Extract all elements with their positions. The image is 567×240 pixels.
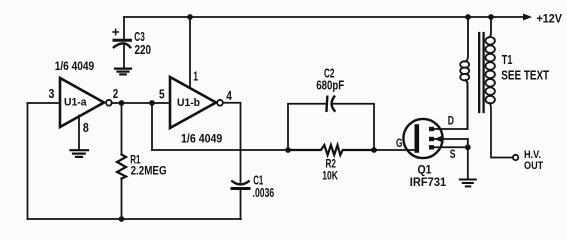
ground below C3 xyxy=(115,69,131,75)
resistor R1 zigzag xyxy=(117,155,126,179)
wire C1 bottom lead xyxy=(240,190,242,219)
wire U1-b output xyxy=(223,103,241,182)
wire U1-b pin1 lead xyxy=(189,17,191,88)
svg-text:5: 5 xyxy=(159,88,165,102)
node R2 left junction xyxy=(285,147,291,153)
op-amp U1-b inverter triangle xyxy=(170,77,216,128)
transistor Q1 source contact xyxy=(429,145,434,149)
ground below Q1 source xyxy=(460,180,476,187)
resistor R2 zigzag xyxy=(288,145,374,155)
svg-text:OUT: OUT xyxy=(524,160,543,172)
node R1 bottom junction xyxy=(119,216,125,222)
capacitor C3 top plate xyxy=(114,39,131,42)
svg-text:D: D xyxy=(448,116,454,128)
svg-text:Q1: Q1 xyxy=(418,165,433,177)
svg-text:IRF731: IRF731 xyxy=(410,177,447,189)
wire C3 bottom lead xyxy=(123,45,125,69)
svg-text:C3: C3 xyxy=(134,30,145,44)
wire pin5 node down xyxy=(151,103,153,150)
node T1 primary rail junction xyxy=(465,14,471,20)
capacitor C1 flat plate xyxy=(232,187,249,190)
resistor R1 bottom lead xyxy=(121,179,123,220)
svg-text:U1-b: U1-b xyxy=(177,97,200,109)
svg-text:2: 2 xyxy=(113,87,118,101)
capacitor C1 curved plate xyxy=(232,181,248,184)
svg-text:1: 1 xyxy=(193,69,198,83)
+12V arrowhead xyxy=(523,14,532,21)
wire top +12V rail xyxy=(124,16,525,18)
svg-text:8: 8 xyxy=(83,121,89,135)
capacitor C2 curved plate xyxy=(332,97,335,111)
svg-text:1/6 4049: 1/6 4049 xyxy=(55,59,95,73)
wire U1-a pin3 input xyxy=(28,102,61,104)
svg-text:G: G xyxy=(396,138,403,150)
op-amp U1-a inverter triangle xyxy=(60,78,104,127)
transistor Q1 body circle xyxy=(403,119,442,158)
svg-text:3: 3 xyxy=(49,87,55,101)
svg-text:1/6 4049: 1/6 4049 xyxy=(181,131,223,145)
node pin1 rail junction xyxy=(187,14,193,20)
capacitor C2 right lead and loop xyxy=(332,104,374,150)
svg-text:T1: T1 xyxy=(502,53,513,67)
wire Q1 source lead xyxy=(432,146,468,148)
svg-text:220: 220 xyxy=(135,43,152,57)
node R2 right junction xyxy=(371,147,377,153)
wire left feedback vertical xyxy=(27,103,29,219)
terminal H.V. OUT circle xyxy=(513,155,518,160)
wire U1-a output to U1-b input xyxy=(112,102,171,104)
op-amp U1-b output bubble xyxy=(217,100,223,106)
transistor Q1 drain contact xyxy=(429,127,434,131)
wire source to ground xyxy=(467,139,469,179)
svg-text:680pF: 680pF xyxy=(316,79,344,93)
node source junction xyxy=(465,144,471,150)
transistor Q1 body contact xyxy=(429,137,434,141)
svg-text:SEE TEXT: SEE TEXT xyxy=(501,69,549,83)
capacitor C2 left lead and loop xyxy=(288,104,326,150)
wire Q1 gate lead xyxy=(374,149,417,151)
op-amp U1-a output bubble xyxy=(106,100,112,106)
wire T1 primary top lead xyxy=(466,17,469,62)
svg-text:+12V: +12V xyxy=(537,14,563,26)
svg-text:2.2MEG: 2.2MEG xyxy=(131,163,167,177)
wire Q1 drain lead xyxy=(432,83,468,129)
wire secondary to H.V. OUT xyxy=(490,103,513,158)
svg-text:.0036: .0036 xyxy=(253,186,275,200)
wire T1 secondary top lead xyxy=(489,17,492,38)
capacitor C2 flat plate xyxy=(325,97,328,111)
capacitor C3 plus sign xyxy=(113,29,118,34)
transformer T1 secondary winding xyxy=(486,37,495,103)
resistor R1 top lead xyxy=(121,103,123,155)
transformer T1 core bar right xyxy=(482,33,484,112)
transistor Q1 gate bar xyxy=(414,127,419,151)
capacitor C3 curved plate xyxy=(114,43,130,47)
svg-text:U1-a: U1-a xyxy=(64,96,87,108)
wire C3 top lead xyxy=(123,17,125,39)
svg-text:S: S xyxy=(450,149,456,161)
transistor Q1 body arrowhead xyxy=(435,135,444,143)
node T1 secondary rail junction xyxy=(488,14,494,20)
wire gate feedback horizontal xyxy=(152,149,288,151)
node U1-b input junction xyxy=(149,100,155,106)
node U1-a output junction xyxy=(119,100,125,106)
transformer T1 primary winding xyxy=(460,61,469,80)
svg-text:10K: 10K xyxy=(322,168,338,182)
wire bottom feedback xyxy=(28,218,242,220)
wire Q1 body lead with arrow xyxy=(432,138,468,140)
wire U1-a pin8 lead xyxy=(78,116,80,150)
ground below U1-a pin8 xyxy=(71,150,89,157)
transformer T1 core bar left xyxy=(478,33,480,112)
wire T1 primary bottom lead xyxy=(466,80,468,129)
svg-text:4: 4 xyxy=(226,89,232,103)
